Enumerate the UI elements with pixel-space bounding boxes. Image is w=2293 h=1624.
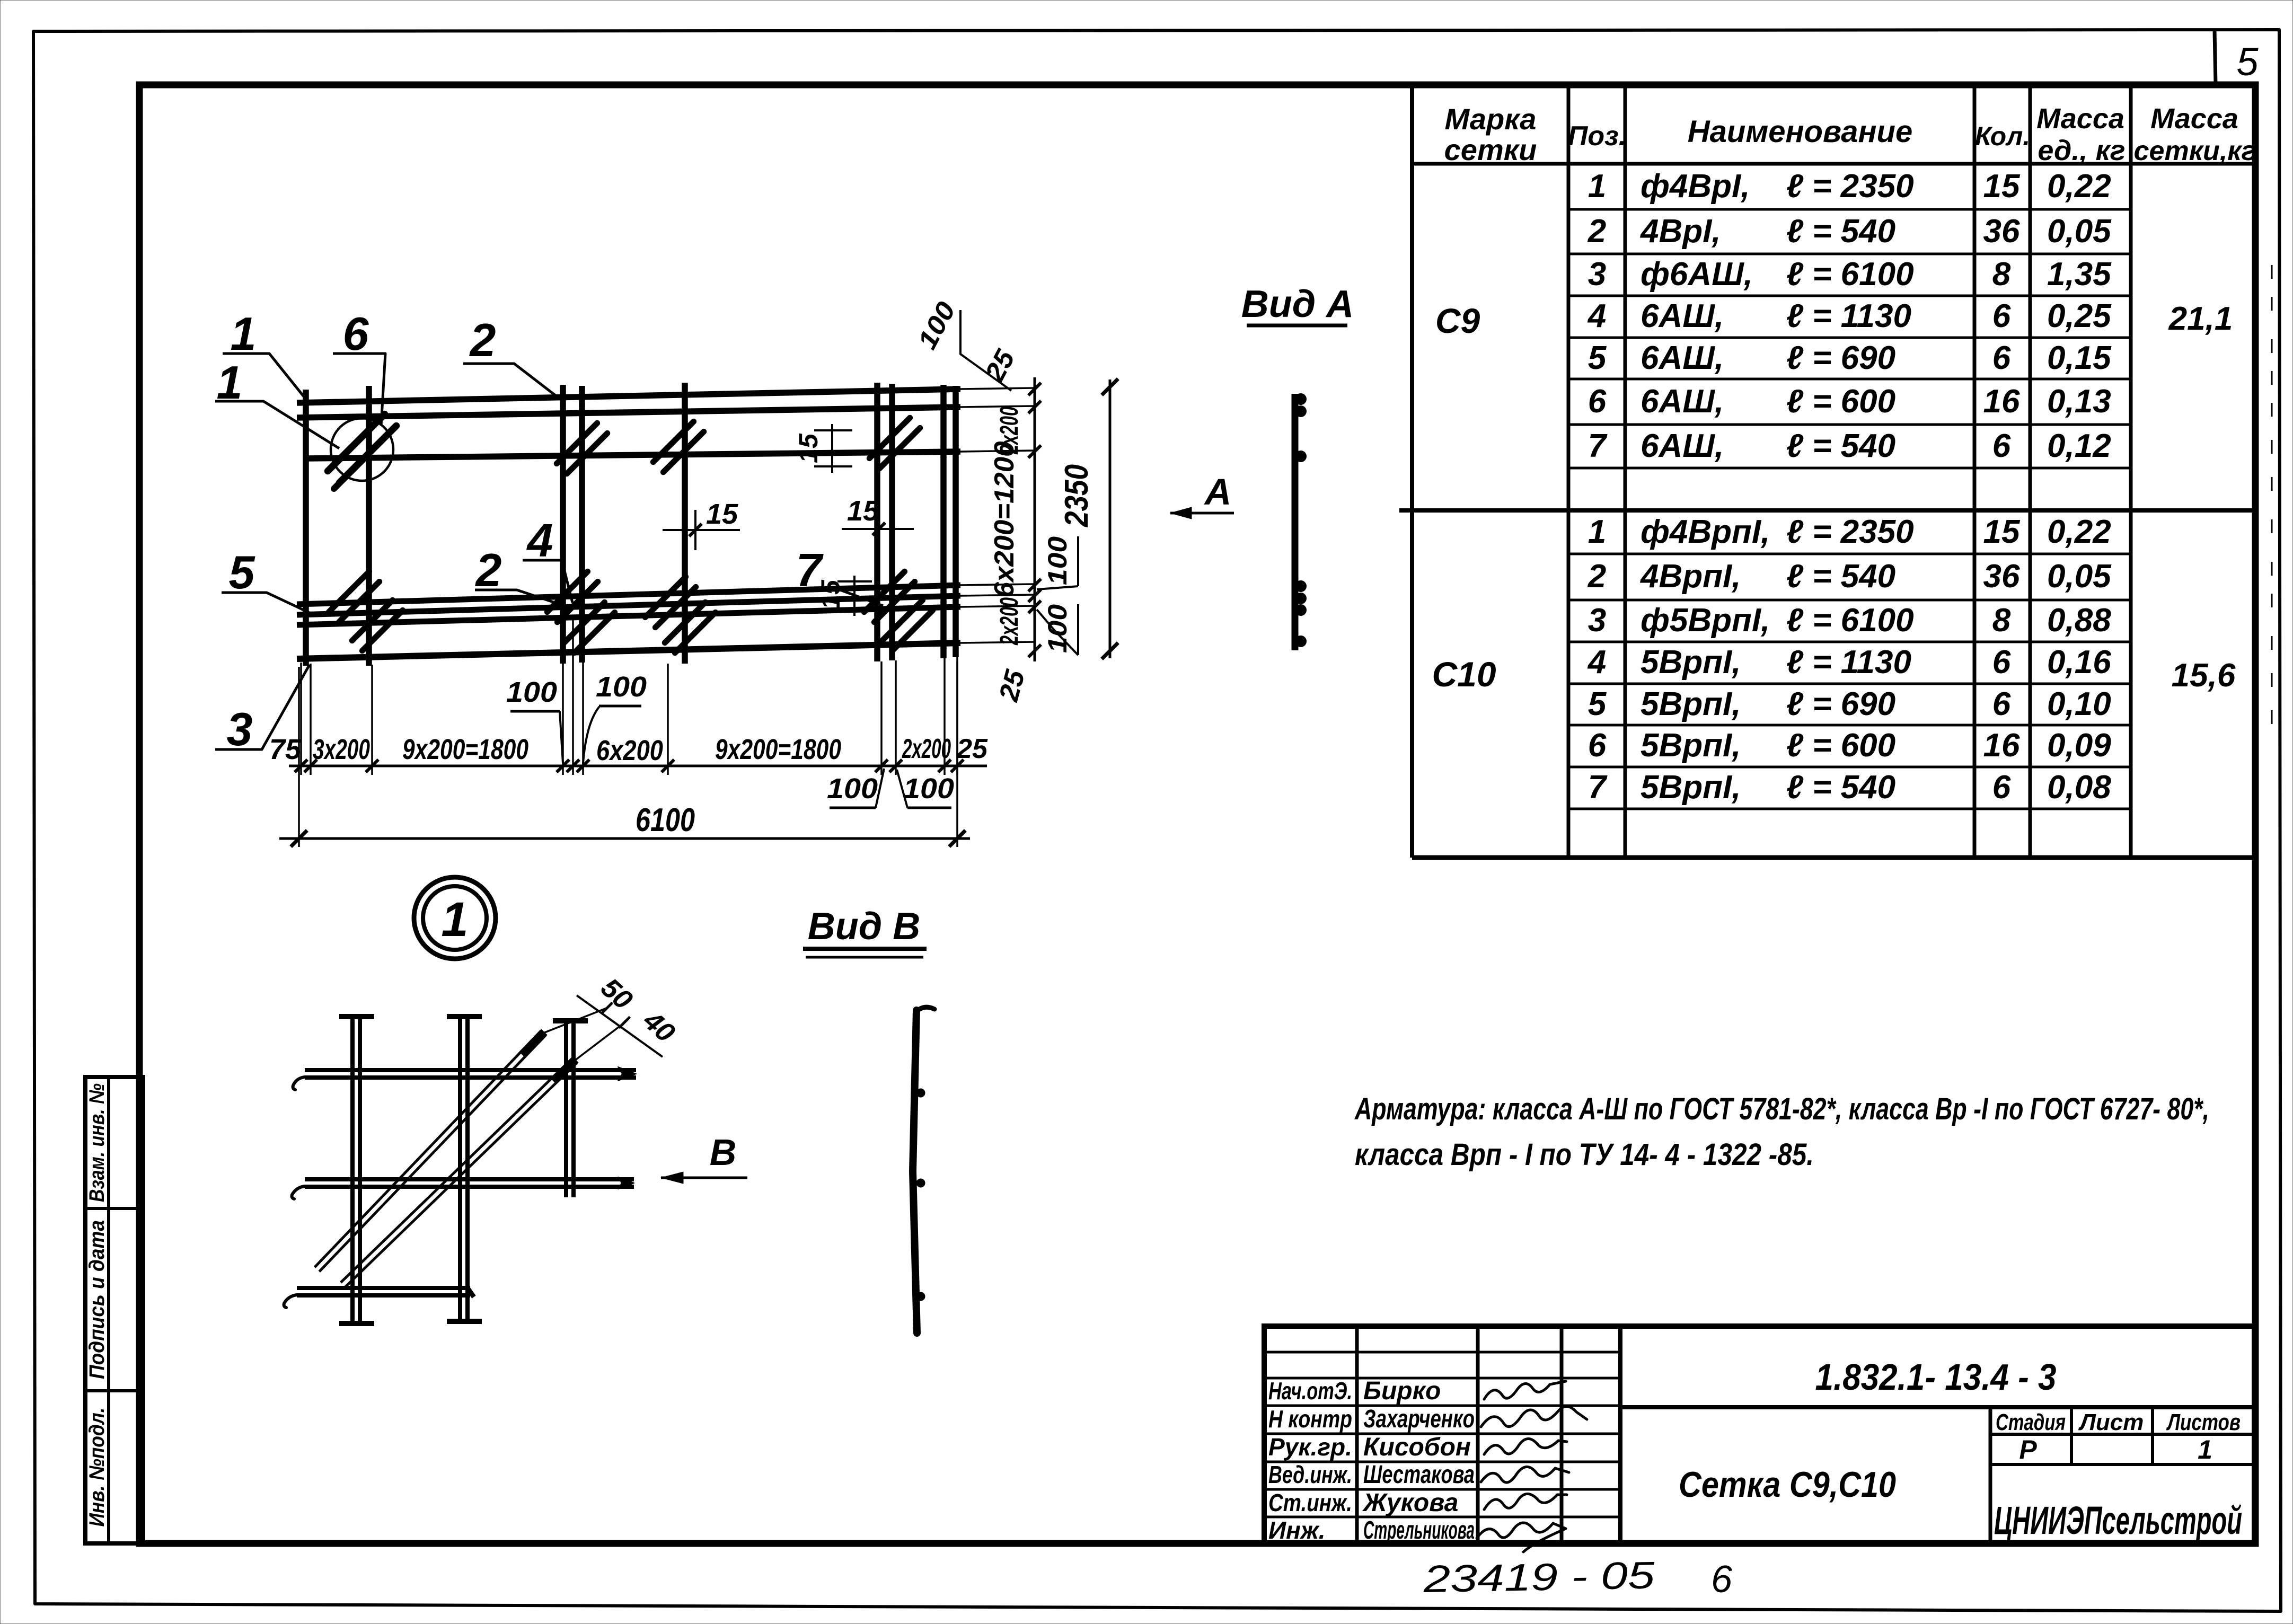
left strip divider 2 (85, 1389, 143, 1392)
svg-text:ℓ = 1130: ℓ = 1130 (1786, 298, 1911, 334)
svg-text:Жукова: Жукова (1362, 1489, 1458, 1517)
table row line C9-3 (1568, 295, 2131, 297)
svg-text:Инв. №подл.: Инв. №подл. (85, 1408, 109, 1527)
svg-text:2: 2 (469, 314, 496, 366)
svg-text:15: 15 (793, 433, 823, 463)
svg-text:1.832.1- 13.4 - 3: 1.832.1- 13.4 - 3 (1815, 1356, 2057, 1398)
plan wire 1 top-b (297, 407, 960, 418)
table row line C9-5 (1568, 378, 2131, 381)
svg-text:7: 7 (1588, 769, 1608, 806)
svg-text:21,1: 21,1 (2168, 301, 2233, 337)
svg-text:3: 3 (227, 703, 253, 755)
svg-text:0,13: 0,13 (2047, 383, 2111, 420)
table row line C10-7 (1568, 808, 2131, 810)
dim 15 lower-right (853, 576, 856, 616)
svg-text:1: 1 (1588, 168, 1606, 205)
table section divider C9/C10 (1399, 508, 2254, 513)
svg-text:3: 3 (1588, 256, 1606, 293)
plan wire 3 mid-b (297, 596, 960, 615)
plan vertical right edge wire (953, 386, 959, 657)
svg-text:6: 6 (1992, 428, 2011, 464)
svg-text:ℓ = 540: ℓ = 540 (1786, 558, 1895, 595)
svg-text:6100: 6100 (636, 802, 695, 839)
svg-text:23419 - 05: 23419 - 05 (1423, 1554, 1656, 1601)
svg-text:15: 15 (1983, 168, 2021, 205)
fragment diagonal bar 1 (319, 1035, 545, 1272)
svg-text:15,6: 15,6 (2172, 657, 2236, 694)
svg-text:0,08: 0,08 (2047, 769, 2111, 806)
title block col line 4 (1618, 1326, 1622, 1543)
signature 2 (1481, 1406, 1587, 1427)
table col Марка|Поз (1567, 85, 1571, 858)
svg-text:4: 4 (1587, 298, 1606, 334)
svg-text:Наименование: Наименование (1688, 114, 1912, 149)
svg-text:ℓ = 600: ℓ = 600 (1786, 383, 1895, 420)
plan vertical wire v2 (366, 386, 372, 666)
fragment horizontal bar b (305, 1185, 634, 1189)
svg-text:1: 1 (2198, 1435, 2212, 1464)
table row line C10-5 (1568, 724, 2131, 727)
svg-text:100: 100 (1043, 536, 1072, 585)
svg-text:Марка: Марка (1445, 102, 1537, 136)
svg-text:ф6АШ,: ф6АШ, (1641, 256, 1753, 293)
svg-text:3х200: 3х200 (313, 734, 370, 765)
svg-text:100: 100 (827, 773, 878, 805)
svg-text:4: 4 (526, 514, 553, 567)
svg-text:5: 5 (1588, 340, 1607, 376)
svg-text:5ВрпI,: 5ВрпI, (1641, 769, 1741, 806)
svg-text:16: 16 (1983, 727, 2020, 764)
svg-text:15: 15 (816, 579, 845, 610)
svg-text:Масса: Масса (2036, 103, 2124, 135)
svg-text:ℓ = 540: ℓ = 540 (1786, 428, 1895, 464)
svg-text:0,05: 0,05 (2047, 558, 2112, 595)
title block col line 3 (1560, 1326, 1564, 1543)
svg-text:В: В (710, 1132, 737, 1173)
svg-text:ЦНИИЭПсельстрой: ЦНИИЭПсельстрой (1994, 1498, 2242, 1542)
svg-text:Бирко: Бирко (1363, 1377, 1441, 1405)
svg-text:2350: 2350 (1059, 464, 1095, 527)
view A bar (1292, 394, 1299, 650)
svg-text:2: 2 (1588, 558, 1606, 595)
svg-text:Масса: Масса (2150, 103, 2238, 135)
table left edge (1410, 85, 1414, 858)
svg-text:0,88: 0,88 (2047, 602, 2111, 639)
svg-text:Нач.отЭ.: Нач.отЭ. (1268, 1377, 1352, 1405)
signature 1 (1484, 1381, 1566, 1399)
stamp table col Лист (2070, 1407, 2073, 1464)
svg-text:36: 36 (1983, 213, 2020, 250)
margin scan specks (2271, 265, 2273, 724)
svg-text:Поз.: Поз. (1568, 121, 1626, 152)
svg-text:16: 16 (1983, 383, 2020, 420)
svg-text:2: 2 (1588, 213, 1606, 250)
svg-text:15: 15 (1983, 514, 2021, 550)
svg-text:Арматура: класса А-Ш по ГОСТ 5: Арматура: класса А-Ш по ГОСТ 5781-82*, к… (1354, 1092, 2209, 1126)
svg-text:Н контр: Н контр (1268, 1405, 1352, 1433)
svg-text:75: 75 (269, 734, 302, 765)
svg-text:7: 7 (1588, 428, 1608, 464)
svg-text:5ВрпI,: 5ВрпI, (1641, 644, 1741, 681)
signature 6 (1477, 1523, 1566, 1552)
table row line C9-6 (1568, 423, 2131, 426)
svg-text:Вид В: Вид В (808, 905, 920, 948)
plan view group (297, 383, 1035, 666)
svg-text:Кол.: Кол. (1975, 121, 2030, 151)
table col Наименование|Кол (1973, 85, 1977, 858)
svg-text:6АШ,: 6АШ, (1641, 298, 1724, 334)
table col Поз|Наименование (1624, 85, 1627, 858)
svg-text:Шестакова: Шестакова (1363, 1461, 1475, 1489)
svg-text:0,22: 0,22 (2047, 168, 2111, 205)
dim 15 upper-right (831, 424, 833, 473)
fragment diagonal bar 2 (345, 1063, 577, 1287)
svg-text:ℓ = 1130: ℓ = 1130 (1786, 644, 1911, 681)
svg-text:ℓ = 690: ℓ = 690 (1786, 340, 1895, 376)
dim 15 right (842, 528, 914, 530)
svg-text:1: 1 (231, 307, 257, 360)
weld marks top row (557, 423, 597, 463)
stamp table col Стадия (1989, 1407, 1992, 1543)
dim line 2350 (1109, 379, 1112, 658)
svg-text:ℓ = 690: ℓ = 690 (1786, 686, 1895, 722)
svg-text:0,25: 0,25 (2047, 298, 2112, 334)
dim line 1 (289, 765, 987, 767)
title block col line 2 (1476, 1326, 1480, 1543)
svg-text:5ВрпI,: 5ВрпI, (1641, 727, 1741, 764)
svg-text:0,09: 0,09 (2047, 727, 2111, 764)
svg-text:ед., кг: ед., кг (2038, 135, 2125, 166)
detail circle 1 (414, 877, 496, 959)
svg-text:8: 8 (1992, 256, 2011, 293)
svg-text:15: 15 (706, 498, 738, 530)
svg-text:6х200: 6х200 (596, 735, 663, 766)
title block number divider (1620, 1405, 2254, 1409)
plan wire 3 bottom (297, 643, 960, 659)
title block top rows (1264, 1351, 1620, 1354)
bottom extension lines (300, 663, 302, 775)
view B bar weld bumps (916, 1089, 925, 1097)
svg-text:0,10: 0,10 (2047, 686, 2111, 722)
plan vertical wire v5a (874, 383, 880, 661)
svg-text:ℓ = 540: ℓ = 540 (1786, 213, 1895, 250)
svg-text:36: 36 (1983, 558, 2020, 595)
svg-text:8: 8 (1992, 602, 2011, 639)
plan wire 3 upper (305, 452, 960, 458)
svg-text:6: 6 (1992, 298, 2011, 334)
svg-text:Взам. инв. №: Взам. инв. № (85, 1083, 109, 1202)
svg-text:ℓ = 540: ℓ = 540 (1786, 769, 1895, 806)
svg-text:Захарченко: Захарченко (1363, 1405, 1475, 1433)
svg-text:6: 6 (343, 307, 369, 360)
svg-text:6АШ,: 6АШ, (1641, 340, 1724, 376)
detail mark circle on plan (331, 418, 393, 481)
svg-text:сетки: сетки (1444, 133, 1537, 166)
svg-text:0,15: 0,15 (2047, 340, 2112, 376)
svg-text:5: 5 (2236, 40, 2259, 84)
svg-text:100: 100 (506, 676, 557, 708)
overall extension left (298, 667, 300, 847)
svg-text:Лист: Лист (2078, 1409, 2144, 1435)
svg-text:4: 4 (1587, 644, 1606, 681)
signature 5 (1484, 1494, 1567, 1510)
dim line 6100 (279, 837, 970, 840)
svg-text:Стадия: Стадия (1996, 1409, 2066, 1435)
stamp table col Листов (2151, 1407, 2154, 1464)
right dim line inner (1034, 377, 1036, 661)
dim 15 center (663, 529, 740, 531)
title block row line 1 (1264, 1405, 1620, 1407)
svg-text:25: 25 (956, 734, 988, 764)
svg-text:5: 5 (1588, 686, 1607, 722)
svg-text:Ст.инж.: Ст.инж. (1268, 1489, 1352, 1516)
svg-text:0,16: 0,16 (2047, 644, 2111, 681)
stamp table value line (1990, 1463, 2254, 1466)
svg-text:6: 6 (1992, 769, 2011, 806)
plan vertical wire v4 (682, 383, 688, 664)
view A direction arrow (1170, 512, 1234, 515)
svg-text:Инж.: Инж. (1268, 1516, 1326, 1544)
svg-text:класса Врп - I по ТУ 14- 4 -: класса Врп - I по ТУ 14- 4 - 1322 -85. (1355, 1137, 1814, 1172)
svg-text:6: 6 (1992, 686, 2011, 722)
svg-text:Вед.инж.: Вед.инж. (1268, 1461, 1352, 1488)
svg-text:100: 100 (596, 671, 647, 703)
fragment horizontal bar c (297, 1293, 470, 1298)
svg-text:3: 3 (1588, 602, 1606, 639)
svg-text:6АШ,: 6АШ, (1641, 383, 1724, 420)
svg-text:6: 6 (1992, 340, 2011, 376)
left strip divider 1 (85, 1207, 143, 1210)
title block row line 4 (1264, 1488, 1620, 1491)
fragment vertical bar b (458, 1016, 462, 1321)
table col Кол|Масса (2029, 85, 2032, 858)
view B direction arrow (661, 1177, 747, 1179)
plan vertical wire v6a (940, 385, 947, 658)
svg-text:6: 6 (1588, 727, 1607, 764)
svg-text:ф5ВрпI,: ф5ВрпI, (1641, 602, 1770, 639)
svg-text:Листов: Листов (2166, 1409, 2241, 1435)
plan wire 3 mid-c (297, 607, 960, 625)
signature 3 (1484, 1438, 1567, 1454)
plan vertical wire v3a (560, 385, 566, 664)
svg-text:5: 5 (229, 546, 255, 598)
svg-text:С10: С10 (1432, 655, 1496, 694)
svg-text:ф4ВрпI,: ф4ВрпI, (1641, 514, 1770, 550)
overall extension right (956, 661, 958, 847)
svg-text:А: А (1204, 471, 1232, 513)
fragment vertical bar a (350, 1016, 355, 1323)
svg-text:6: 6 (1588, 383, 1607, 420)
svg-text:2х200: 2х200 (995, 597, 1024, 646)
table col Масса ед|Масса сетки (2129, 85, 2133, 858)
svg-text:Подпись и дата: Подпись и дата (85, 1220, 109, 1379)
svg-text:1,35: 1,35 (2047, 256, 2112, 293)
svg-text:С9: С9 (1435, 301, 1480, 340)
svg-text:Р: Р (2019, 1435, 2037, 1464)
fragment 45deg dim line (577, 995, 663, 1057)
table row line C10-3 (1568, 641, 2131, 643)
svg-text:ℓ = 2350: ℓ = 2350 (1786, 168, 1914, 205)
svg-text:Рук.гр.: Рук.гр. (1268, 1433, 1352, 1461)
svg-text:2х200: 2х200 (902, 734, 951, 764)
left strip column divider (107, 1077, 110, 1543)
weld marks middle row (329, 571, 369, 612)
svg-text:ℓ = 6100: ℓ = 6100 (1786, 256, 1914, 293)
svg-text:1: 1 (1588, 514, 1606, 550)
view B bar (913, 1010, 917, 1333)
plan vertical left edge wire (303, 390, 309, 666)
title block row line 5 (1264, 1516, 1620, 1519)
table row line C10-6 (1568, 766, 2131, 769)
right dim leader 100 top (960, 310, 1011, 391)
svg-text:ℓ = 600: ℓ = 600 (1786, 727, 1895, 764)
svg-text:ℓ = 2350: ℓ = 2350 (1786, 514, 1914, 550)
svg-text:4ВрпI,: 4ВрпI, (1639, 558, 1741, 595)
svg-text:6АШ,: 6АШ, (1641, 428, 1724, 464)
svg-text:9х200=1800: 9х200=1800 (715, 734, 841, 765)
svg-text:5ВрпI,: 5ВрпI, (1641, 686, 1741, 722)
svg-text:0,22: 0,22 (2047, 514, 2111, 550)
svg-text:Сетка С9,С10: Сетка С9,С10 (1679, 1464, 1896, 1505)
svg-text:Стрельникова: Стрельникова (1363, 1516, 1475, 1544)
svg-text:ф4ВрI,: ф4ВрI, (1641, 168, 1750, 205)
table header underline (1412, 162, 2254, 166)
fragment vertical bar c (564, 1020, 568, 1197)
plan vertical wire v3b (579, 386, 585, 663)
svg-text:0,05: 0,05 (2047, 213, 2112, 250)
title block col line 1 (1355, 1326, 1359, 1543)
svg-text:0,12: 0,12 (2047, 428, 2111, 464)
svg-text:100: 100 (903, 773, 954, 805)
table bottom edge (1412, 855, 2254, 860)
table row line C10-2 (1568, 599, 2131, 602)
svg-text:6х200=1200: 6х200=1200 (989, 441, 1020, 597)
left strip box (85, 1077, 143, 1543)
table row line C10-1 (1568, 553, 2131, 555)
detail mark hatch (328, 414, 384, 471)
svg-text:15: 15 (847, 495, 879, 527)
svg-text:Кисобон: Кисобон (1363, 1433, 1471, 1461)
title block row line 2 (1264, 1433, 1620, 1435)
view A bar weld bumps (1295, 394, 1307, 405)
title block row line 3 (1264, 1461, 1620, 1463)
fragment horizontal bar a (305, 1075, 636, 1080)
svg-text:ℓ = 6100: ℓ = 6100 (1786, 602, 1914, 639)
plan wire 3 mid-a (297, 585, 960, 604)
svg-text:4ВрI,: 4ВрI, (1639, 213, 1721, 250)
plan vertical wire v5b (889, 384, 895, 660)
table row line C9-2 (1568, 253, 2131, 255)
svg-text:Вид А: Вид А (1241, 283, 1354, 325)
svg-text:1: 1 (441, 893, 468, 947)
svg-text:сетки,кг: сетки,кг (2134, 136, 2256, 166)
plan wire 1 top-a (297, 389, 960, 403)
table row line C9-7 (1568, 467, 2131, 470)
svg-text:9х200=1800: 9х200=1800 (402, 734, 528, 765)
table row line C9-1 (1568, 208, 2131, 211)
svg-text:6: 6 (1992, 644, 2011, 681)
table row line C9-4 (1568, 337, 2131, 339)
sheet number box line (2215, 31, 2216, 84)
title block outline (1264, 1326, 2254, 1543)
svg-text:2: 2 (475, 544, 502, 596)
stamp table header line (1990, 1433, 2254, 1436)
signature 4 (1481, 1467, 1569, 1482)
svg-text:6: 6 (1711, 1558, 1733, 1601)
table row line C10-4 (1568, 683, 2131, 685)
plan right extension lines (960, 388, 1035, 389)
